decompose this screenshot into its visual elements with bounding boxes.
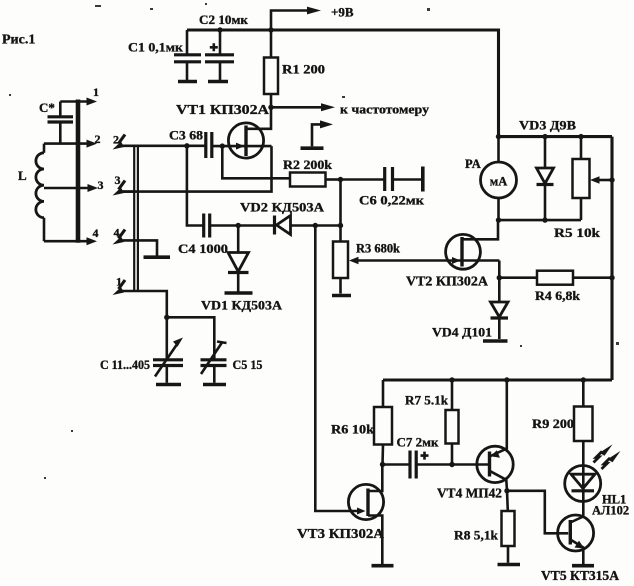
svg-text:2: 2 xyxy=(95,132,101,146)
resistor R2 200k xyxy=(283,157,341,187)
svg-text:VD3 Д9В: VD3 Д9В xyxy=(519,118,576,133)
capacitor C4 1000 xyxy=(178,146,238,256)
node: R2 right junction xyxy=(338,177,343,182)
plug-in coil unit: pin bar xyxy=(76,100,81,243)
node: VD3 top xyxy=(542,134,547,139)
svg-text:VT1 КП302А: VT1 КП302А xyxy=(176,102,269,117)
svg-text:VT3 КП302А: VT3 КП302А xyxy=(297,526,384,541)
svg-text:R6 10k: R6 10k xyxy=(331,422,375,437)
node: R5 top xyxy=(578,134,583,139)
resistor R1 200 xyxy=(264,30,325,107)
svg-text:VT2 КП302А: VT2 КП302А xyxy=(406,274,488,289)
node: R3 top xyxy=(338,223,343,228)
top +9V rail wire xyxy=(187,30,499,137)
svg-text:C4 1000: C4 1000 xyxy=(178,241,228,256)
socket bar xyxy=(134,145,138,292)
svg-text:R3 680k: R3 680k xyxy=(356,241,401,256)
svg-text:VT4 МП42: VT4 МП42 xyxy=(437,486,502,501)
node: tuning caps junction xyxy=(164,315,169,320)
node: VT2 source / R4 / VD4 junction xyxy=(497,275,502,280)
svg-text:R1 200: R1 200 xyxy=(282,62,325,77)
diode VD3 Д9В xyxy=(519,118,576,221)
diode VD1 КД503А xyxy=(201,226,283,313)
resistor R9 200 xyxy=(532,380,593,466)
svg-text:R2 200k: R2 200k xyxy=(283,157,333,172)
socket contact 4 / grounded xyxy=(113,226,171,258)
scan specks xyxy=(9,3,619,479)
wire R2 junction down to detector node xyxy=(339,180,342,226)
trimmer capacitor C5 15 xyxy=(201,342,263,385)
svg-text:3: 3 xyxy=(115,173,121,187)
svg-text:R8 5,1k: R8 5,1k xyxy=(454,528,499,543)
svg-text:мА: мА xyxy=(490,175,508,189)
potentiometer R3 680k xyxy=(332,226,401,296)
svg-text:R9 200: R9 200 xyxy=(532,416,574,431)
transistor VT2 КП302А xyxy=(406,220,499,288)
node: VD1 branch xyxy=(236,223,241,228)
svg-text:R5 10k: R5 10k xyxy=(554,225,601,240)
resistor R8 5,1k xyxy=(454,491,520,565)
inductor L xyxy=(18,144,44,242)
wire meter bottom bus xyxy=(499,219,582,222)
svg-text:Рис.1: Рис.1 xyxy=(2,33,35,48)
potentiometer R5 10k xyxy=(554,137,612,240)
wire long vertical to VT3 gate xyxy=(315,226,358,512)
node: R9 top xyxy=(581,377,586,382)
node: R5 wiper on vertical xyxy=(609,177,614,182)
node: R4 right on vertical xyxy=(609,275,614,280)
transistor VT3 КП302А xyxy=(297,465,394,566)
wire right vertical supply xyxy=(610,137,613,380)
coil pin 4 xyxy=(44,226,99,245)
node: R1 bottom / drain / frequency-meter junction xyxy=(268,105,273,110)
transistor VT5 КТ315А xyxy=(541,515,619,583)
meter PA xyxy=(465,137,517,221)
socket contact 3 xyxy=(113,173,136,196)
variable capacitor С 11...405 xyxy=(100,317,183,384)
capacitor C* xyxy=(39,100,73,144)
svg-text:С 11...405: С 11...405 xyxy=(100,357,150,372)
svg-text:+9В: +9В xyxy=(331,5,354,20)
node: R7 bottom / C7 junction xyxy=(449,462,454,467)
transistor VT4 МП42 xyxy=(437,380,513,501)
wire VT4 collector to VT5 base xyxy=(507,491,568,534)
node: R7 top xyxy=(449,377,454,382)
coil pin 3 xyxy=(44,178,104,192)
svg-text:PA: PA xyxy=(465,157,481,171)
capacitor C2 10мк xyxy=(199,12,249,82)
svg-text:С*: С* xyxy=(39,100,55,115)
svg-text:R4 6,8k: R4 6,8k xyxy=(535,288,581,303)
wire lower supply rail xyxy=(383,378,612,381)
coil pin 2 xyxy=(44,132,101,148)
output ground arrow (second terminal) xyxy=(301,120,334,148)
output arrow "к частотомеру" xyxy=(271,102,430,117)
resistor R4 6,8k xyxy=(499,271,612,303)
svg-text:VD2 КД503А: VD2 КД503А xyxy=(240,200,325,215)
transistor VT1 КП302А xyxy=(176,102,271,158)
node: gate junction xyxy=(220,143,225,148)
socket contact 1 xyxy=(113,275,167,318)
LED emission arrows xyxy=(594,444,621,469)
wire junction to C5 xyxy=(167,317,215,360)
wire detector node to R3 top xyxy=(315,224,340,227)
node: C4 branch junction xyxy=(184,143,189,148)
svg-text:АЛ102: АЛ102 xyxy=(592,504,629,518)
wire top distribution xyxy=(499,135,613,138)
node: VT4 collector junction xyxy=(504,488,509,493)
svg-text:1: 1 xyxy=(93,85,99,99)
svg-text:C2 10мк: C2 10мк xyxy=(199,12,249,27)
capacitor C6 0,22мк xyxy=(341,167,425,208)
node: +9V / meter top junction xyxy=(496,134,501,139)
resistor R7 5.1k xyxy=(405,380,459,465)
diode VD4 Д101 xyxy=(432,278,508,341)
svg-text:C7 2мк: C7 2мк xyxy=(397,435,440,450)
svg-text:VD4 Д101: VD4 Д101 xyxy=(432,325,492,340)
capacitor C1 0,1мк xyxy=(128,30,201,82)
node: VT3 gate branch xyxy=(313,223,318,228)
svg-text:R7 5.1k: R7 5.1k xyxy=(405,393,449,408)
node: rail junction at C2 xyxy=(217,27,222,32)
LED HL1 АЛ102 xyxy=(565,466,629,518)
capacitor C7 2мк xyxy=(383,435,453,479)
node: meter bottom junction xyxy=(496,217,501,222)
svg-text:VT5 КТ315А: VT5 КТ315А xyxy=(541,568,619,583)
svg-text:С6 0,22мк: С6 0,22мк xyxy=(359,193,425,208)
node: R6 bottom / C7 junction xyxy=(380,462,385,467)
svg-text:к частотомеру: к частотомеру xyxy=(340,102,430,117)
svg-text:C3 68: C3 68 xyxy=(169,128,204,143)
coil pin 1 xyxy=(60,85,99,106)
resistor R6 10k xyxy=(331,380,392,465)
svg-text:4: 4 xyxy=(93,226,99,240)
socket contact 2 xyxy=(113,133,126,150)
wire gate feedback loop to R2 xyxy=(222,146,290,178)
svg-text:VD1 КД503А: VD1 КД503А xyxy=(201,298,283,313)
capacitor C3 68 xyxy=(121,128,272,159)
wire R3 wiper to VT2 gate xyxy=(358,259,500,262)
svg-text:C1 0,1мк: C1 0,1мк xyxy=(128,40,184,55)
svg-text:3: 3 xyxy=(98,178,104,192)
svg-text:L: L xyxy=(18,168,27,183)
wire VT1 source down to pin 3 xyxy=(121,146,272,192)
+9V terminal arrow xyxy=(271,5,354,31)
node: VD3 bottom xyxy=(542,217,547,222)
node: rail junction at R1 xyxy=(268,27,273,32)
svg-text:C5 15: C5 15 xyxy=(233,357,263,372)
node: VT4 emitter top xyxy=(504,377,509,382)
diode VD2 КД503А xyxy=(238,200,324,235)
